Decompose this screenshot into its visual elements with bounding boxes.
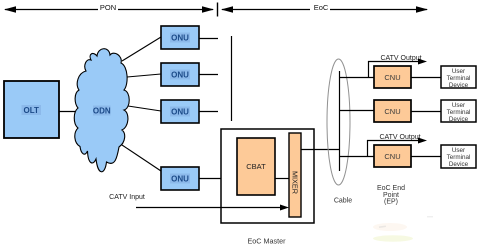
svg-text:Terminal: Terminal bbox=[447, 75, 471, 82]
wire CBAT to MIXER bbox=[275, 178, 289, 180]
cloud ODN bbox=[74, 49, 129, 172]
wire stub ONU2 bbox=[199, 74, 218, 76]
svg-text:User: User bbox=[452, 68, 465, 75]
wire cloud to ONU2 bbox=[127, 74, 161, 77]
faint fleck 2 bbox=[427, 216, 433, 217]
wire stub ONU3 bbox=[199, 111, 218, 113]
svg-text:CNU: CNU bbox=[384, 73, 400, 82]
wire trunk to CNU1 bbox=[339, 77, 374, 79]
wire CNU2 to UTD2 bbox=[411, 111, 441, 113]
svg-text:ONU: ONU bbox=[171, 71, 189, 80]
span separator line bbox=[217, 3, 219, 17]
wire CATV input arrow bbox=[136, 205, 289, 211]
box CBAT bbox=[237, 138, 275, 195]
wire CNU1 to UTD1 bbox=[411, 77, 441, 79]
svg-text:ONU: ONU bbox=[171, 175, 189, 184]
faint artifact smudge pink bbox=[373, 223, 407, 231]
box ONU1 bbox=[161, 26, 199, 49]
svg-text:OLT: OLT bbox=[23, 106, 39, 115]
CATV Output 1 label and arrow bbox=[368, 55, 427, 77]
svg-text:Device: Device bbox=[449, 116, 469, 123]
EoC span arrow bbox=[221, 3, 428, 14]
box CNU2 bbox=[374, 100, 411, 122]
faint artifact smudge bbox=[373, 235, 413, 241]
box OLT bbox=[4, 81, 59, 138]
wire cloud to ONU3 bbox=[128, 106, 161, 111]
svg-text:CNU: CNU bbox=[384, 152, 400, 161]
box MIXER bbox=[289, 133, 301, 217]
wire stub ONU1 bbox=[199, 38, 218, 40]
box ONU3 bbox=[161, 100, 199, 123]
EoC End Point (EP) label bbox=[377, 185, 405, 206]
svg-text:(EP): (EP) bbox=[384, 199, 398, 206]
box User Terminal Device 2 bbox=[441, 100, 476, 123]
svg-text:Terminal: Terminal bbox=[447, 154, 471, 161]
svg-text:CATV Input: CATV Input bbox=[109, 194, 145, 201]
svg-text:MIXER: MIXER bbox=[291, 171, 300, 194]
wire cloud to ONU1 bbox=[122, 37, 161, 61]
svg-text:Cable: Cable bbox=[334, 198, 352, 205]
box CNU1 bbox=[374, 66, 411, 88]
cable trunk line bbox=[339, 71, 341, 171]
svg-text:Terminal: Terminal bbox=[447, 109, 471, 116]
vertical bus line bbox=[231, 36, 233, 121]
svg-text:ONU: ONU bbox=[171, 108, 189, 117]
wire ONU4 to CBAT bbox=[199, 178, 237, 180]
svg-text:EoC End: EoC End bbox=[377, 185, 405, 192]
CATV Output 2 label and arrow bbox=[367, 134, 427, 156]
box ONU4 bbox=[161, 167, 199, 190]
wire cloud to ONU4 bbox=[122, 145, 161, 171]
wire CNU3 to UTD3 bbox=[411, 156, 441, 158]
box User Terminal Device 1 bbox=[441, 66, 476, 89]
svg-text:EoC: EoC bbox=[314, 3, 329, 12]
svg-text:User: User bbox=[452, 102, 465, 109]
svg-text:EoC Master: EoC Master bbox=[248, 237, 287, 246]
wire trunk to CNU3 bbox=[339, 156, 374, 158]
svg-text:ONU: ONU bbox=[171, 34, 189, 43]
svg-text:Device: Device bbox=[449, 82, 469, 89]
svg-text:CBAT: CBAT bbox=[246, 162, 266, 171]
svg-text:User: User bbox=[452, 147, 465, 154]
box CNU3 bbox=[374, 145, 411, 167]
wire OLT to ODN cloud bbox=[59, 111, 80, 113]
svg-text:PON: PON bbox=[100, 3, 116, 12]
box User Terminal Device 3 bbox=[441, 145, 476, 168]
svg-text:Device: Device bbox=[449, 161, 469, 168]
faint fleck 1 bbox=[379, 225, 386, 228]
box EoC Master bbox=[221, 129, 314, 223]
svg-text:CNU: CNU bbox=[384, 107, 400, 116]
box ONU2 bbox=[161, 63, 199, 86]
wire MIXER to cable trunk bbox=[301, 149, 340, 151]
svg-text:ODN: ODN bbox=[93, 107, 111, 116]
PON span arrow bbox=[4, 3, 214, 14]
wire trunk to CNU2 bbox=[339, 110, 374, 112]
cable ellipse bbox=[327, 59, 350, 185]
